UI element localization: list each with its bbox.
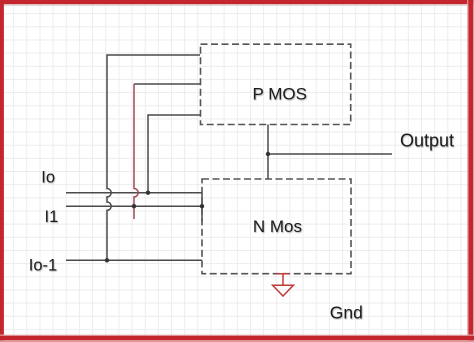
junction dot at N MOS left edge on I1 bbox=[200, 204, 204, 208]
svg-text:N Mos: N Mos bbox=[253, 217, 302, 236]
junction dot on Io wire at x148 bbox=[146, 191, 150, 195]
page frame red border right outer soft edge bbox=[472, 0, 474, 342]
svg-text:Io: Io bbox=[41, 168, 55, 186]
page frame red border top bbox=[0, 0, 474, 4]
page frame inner shadow line bbox=[4, 5, 470, 7]
junction dot on Output connector bbox=[266, 152, 270, 156]
svg-text:Gnd: Gnd bbox=[330, 302, 363, 322]
block N MOS dashed box bbox=[202, 179, 351, 274]
page frame red border left bbox=[0, 0, 4, 342]
junction dot on Io-1 wire at x107 bbox=[105, 258, 109, 262]
block P MOS dashed box bbox=[201, 44, 351, 124]
junction dot on I1 wire at red wire bbox=[132, 204, 136, 208]
wire connector P MOS to N MOS bbox=[267, 125, 269, 180]
wire red vertical with hop over Io, crossing I1 bbox=[134, 84, 138, 219]
ground symbol bbox=[273, 274, 294, 296]
svg-text:I1: I1 bbox=[45, 208, 59, 226]
page frame red border right inner fringe bbox=[467, 0, 468, 342]
wire Output horizontal bbox=[268, 153, 392, 155]
page frame red border right bbox=[468, 0, 473, 342]
svg-text:Io-1: Io-1 bbox=[29, 257, 57, 275]
wire from P MOS pin2 middle horizontal bbox=[134, 83, 200, 85]
svg-text:P MOS: P MOS bbox=[253, 85, 307, 104]
svg-text:Output: Output bbox=[400, 130, 454, 150]
page frame red border bottom inner fringe bbox=[0, 335, 474, 336]
wire from P MOS pin3 bottom, to Io node bbox=[148, 115, 200, 193]
wire Io input horizontal bbox=[66, 192, 202, 194]
labels group bbox=[29, 85, 454, 323]
wire Io-1 input horizontal bbox=[66, 259, 202, 261]
page frame red border bottom outer soft edge bbox=[0, 340, 474, 342]
wire from P MOS pin1 top, vertical with hops over Io and I1, down to Io-1 bbox=[107, 55, 200, 260]
wire I1 input horizontal bbox=[66, 205, 202, 207]
wire Io corner down to I1 node on N MOS edge bbox=[201, 193, 203, 222]
page frame red border bottom bbox=[0, 336, 474, 341]
